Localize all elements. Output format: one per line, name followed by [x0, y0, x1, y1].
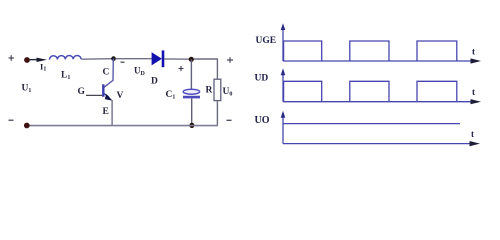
minus mark of U0	[227, 119, 232, 121]
transistor V emitter wire down	[111, 100, 113, 126]
wire: capacitor to bottom rail	[191, 98, 193, 125]
transistor V collector wire	[104, 59, 113, 88]
svg-text:I1: I1	[40, 62, 46, 73]
waveform UD vertical axis	[282, 73, 284, 102]
waveform UGE pulse train	[284, 41, 457, 61]
svg-text:D: D	[151, 77, 158, 87]
svg-text:C: C	[103, 68, 110, 78]
source U1 negative terminal mark	[9, 119, 14, 121]
wire: output node to resistor branch (top right corner)	[194, 59, 218, 79]
minus mark of UD	[121, 61, 125, 63]
node: capacitor bottom junction dot	[189, 123, 194, 128]
transistor V emitter with arrow	[104, 93, 109, 97]
svg-text:UO: UO	[255, 115, 270, 126]
svg-text:UGE: UGE	[256, 36, 277, 46]
waveform UO vertical axis	[282, 116, 284, 144]
svg-text:UD: UD	[134, 66, 146, 78]
inductor L1	[49, 55, 81, 59]
waveform UGE vertical axis	[282, 28, 284, 61]
diode D cathode bar	[162, 50, 165, 67]
svg-text:R: R	[206, 86, 213, 96]
svg-text:U0: U0	[223, 87, 233, 98]
wire: node down to capacitor C1	[190, 59, 192, 89]
capacitor C1 top plate	[183, 89, 199, 94]
svg-text:E: E	[103, 107, 109, 117]
svg-text:UD: UD	[255, 73, 269, 83]
waveform UO time axis	[283, 143, 472, 145]
diode D triangle	[152, 52, 162, 65]
svg-text:V: V	[117, 91, 124, 101]
svg-text:t: t	[471, 129, 474, 139]
svg-text:t: t	[472, 87, 475, 97]
transistor V base lead from G	[86, 94, 102, 96]
waveform UD time axis	[283, 101, 473, 103]
source U1 positive terminal mark	[9, 55, 15, 61]
wire: diode cathode to output node	[164, 58, 191, 60]
capacitor C1 bottom plate	[183, 96, 200, 99]
plus mark of U0	[227, 57, 233, 63]
wire: inductor to collector node	[81, 58, 113, 61]
wire: collector node to diode anode	[116, 58, 152, 60]
node: capacitor top junction dot	[189, 57, 194, 62]
node: input + terminal dot	[24, 57, 30, 63]
waveform UD pulse train	[284, 81, 457, 101]
wire: bottom rail	[27, 125, 218, 127]
plus mark of UD	[179, 66, 184, 71]
current arrow I1	[37, 58, 48, 62]
svg-text:U1: U1	[22, 84, 32, 95]
node: input - terminal dot	[24, 123, 30, 129]
svg-text:L1: L1	[61, 71, 70, 82]
node: collector junction dot	[111, 56, 116, 61]
wire: resistor bottom to bottom rail	[216, 101, 218, 126]
transistor V base bar	[102, 84, 104, 97]
svg-text:C1: C1	[166, 90, 176, 101]
svg-text:G: G	[78, 87, 86, 97]
waveform UGE time axis	[283, 60, 473, 62]
wire: top-left segment with current direction	[30, 59, 39, 61]
resistor R body	[214, 79, 221, 100]
svg-text:t: t	[472, 47, 475, 57]
waveform UO constant output level line	[283, 123, 460, 125]
